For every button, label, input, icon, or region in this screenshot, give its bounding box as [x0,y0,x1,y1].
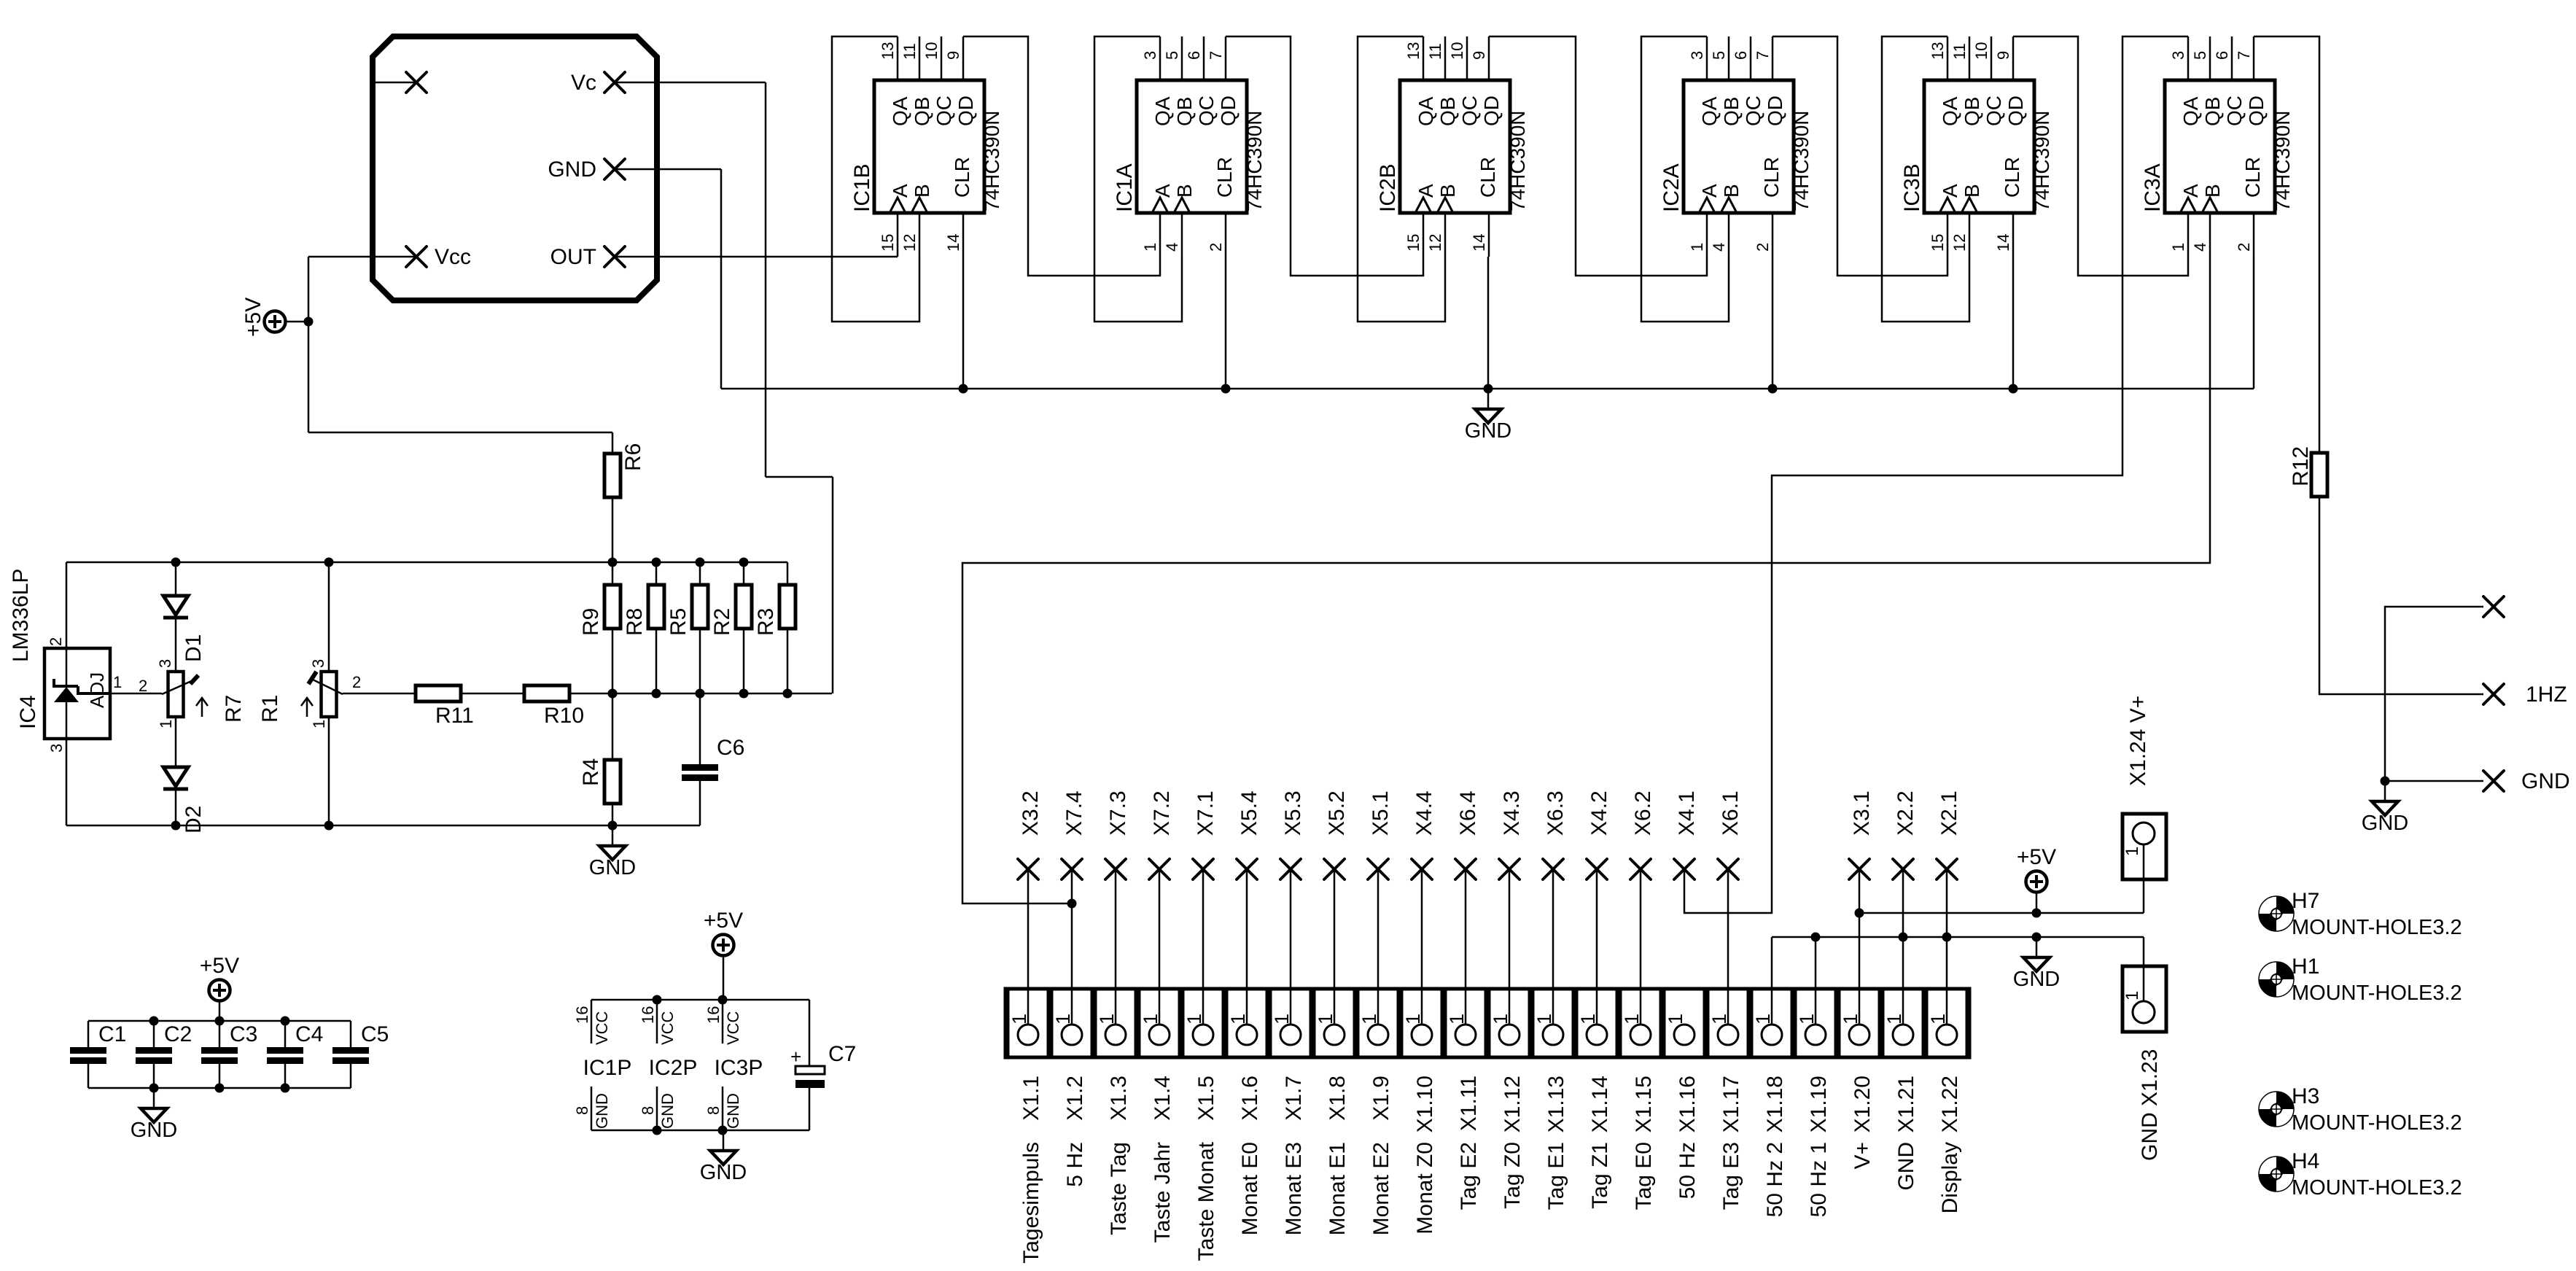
wire C6 top lead [699,693,701,764]
pin X5.3 (X) [1280,859,1301,879]
wire IC1B QA to B feedback [832,36,919,322]
ground symbol at outputs [2362,781,2408,835]
pin X7.1 (X) [1193,859,1213,879]
svg-text:X1.5: X1.5 [1194,1076,1218,1121]
svg-text:B: B [2201,184,2224,198]
svg-text:Monat E2: Monat E2 [1369,1142,1393,1235]
svg-text:6: 6 [1732,51,1750,60]
junction on bottom rail [783,689,793,699]
junction R4 on GND rail [608,821,618,831]
wire R9 top lead [612,562,614,585]
svg-text:10: 10 [922,42,941,60]
junction R1 column on GND rail [324,821,334,831]
pin X6.2 (X) [1630,859,1651,879]
svg-text:GND: GND [548,158,596,182]
connector pad X1.9 [1358,989,1398,1057]
svg-text:MOUNT-HOLE3.2: MOUNT-HOLE3.2 [2292,1176,2462,1200]
svg-text:13: 13 [879,42,897,60]
connector X1.23 [2122,966,2166,1032]
svg-text:D2: D2 [182,806,206,833]
svg-text:3: 3 [1688,51,1706,60]
junction on C bank top rail [215,1017,225,1026]
svg-text:X1.16: X1.16 [1676,1076,1700,1132]
wire GND rail of power pins [591,1130,809,1132]
svg-text:1HZ: 1HZ [2526,683,2567,707]
svg-text:CLR: CLR [1476,157,1499,198]
svg-text:4: 4 [1710,243,1728,252]
svg-text:14: 14 [1470,234,1488,252]
svg-text:QA: QA [889,96,911,126]
oscillator pin GND (X) [604,159,625,179]
svg-text:5: 5 [2191,51,2209,60]
pin X3.2 (X) [1018,859,1038,879]
svg-text:CLR: CLR [1213,157,1236,198]
svg-text:MOUNT-HOLE3.2: MOUNT-HOLE3.2 [2292,916,2462,939]
junction on GND rail right [2032,933,2042,942]
power pins IC3P [722,1000,724,1043]
junction IC2A CLR on GND bus [1768,384,1778,394]
svg-text:R4: R4 [579,758,603,786]
svg-text:X1.22: X1.22 [1938,1076,1962,1132]
resistor R5 [692,585,708,629]
wire to D1 anode [175,562,177,596]
svg-text:X3.2: X3.2 [1019,790,1043,836]
svg-text:11: 11 [1426,43,1444,60]
svg-text:H7: H7 [2292,889,2319,913]
svg-text:4: 4 [2191,243,2209,252]
svg-text:R6: R6 [621,443,645,471]
svg-text:X4.3: X4.3 [1500,790,1524,836]
pin X5.1 (X) [1368,859,1388,879]
junction IC3B CLR on GND bus [2009,384,2018,394]
IC4 LM336LP voltage reference [44,648,110,739]
pin X4.2 (X) [1587,859,1607,879]
resistor R4 [604,760,620,804]
connector pad X1.8 [1314,989,1355,1057]
capacitor C3 [201,1047,238,1064]
junction on C bank top rail [281,1017,290,1026]
wire C3 bottom lead [219,1064,221,1088]
svg-text:8: 8 [573,1106,591,1115]
junction +5V on V+ rail [2032,909,2042,918]
svg-text:GND: GND [700,1161,747,1184]
svg-text:R3: R3 [754,608,778,636]
svg-text:1: 1 [1446,1014,1468,1025]
+5V supply (IC power) [704,909,743,1000]
diode D2 [163,767,188,789]
svg-text:Tag Z1: Tag Z1 [1588,1142,1612,1209]
svg-text:13: 13 [1929,42,1947,60]
wire bottom GND rail [66,825,700,827]
wire R8 bottom lead [655,629,658,693]
wire IC2A CLR to GND bus [1772,257,1774,389]
junction on bottom rail [608,689,618,699]
svg-text:B: B [1961,184,1983,198]
svg-text:MOUNT-HOLE3.2: MOUNT-HOLE3.2 [2292,1111,2462,1135]
svg-text:Vc: Vc [571,71,596,95]
svg-text:X5.1: X5.1 [1369,790,1393,836]
ground symbol at divider [589,825,636,879]
svg-text:X3.1: X3.1 [1850,790,1874,836]
ground symbol at GND bus [1465,389,1511,443]
svg-text:QA: QA [1939,96,1961,126]
wire IC3A QA to 50 Hz 2 tap (X4.1) [1684,36,2188,913]
svg-text:X2.2: X2.2 [1894,790,1918,836]
wire pad X1.19 riser [1815,937,1817,1025]
wire C6 bottom lead [699,781,701,825]
wire IC1A CLR to GND bus [1225,257,1227,389]
svg-text:+: + [790,1046,801,1068]
wire R5 top lead [699,562,701,585]
svg-text:1: 1 [1577,1014,1599,1025]
svg-text:X1.17: X1.17 [1719,1076,1743,1132]
wire X2.2 to pad [1902,869,1904,1025]
svg-text:1: 1 [1927,1014,1949,1025]
svg-text:C5: C5 [361,1022,389,1046]
wire GND from oscillator [615,168,721,171]
svg-text:A: A [1415,184,1437,198]
wire Vc to divider rail [832,477,834,693]
resistor R3 [779,585,795,629]
svg-text:CLR: CLR [951,157,973,198]
wire IC3B CLR to GND bus [2012,257,2015,389]
svg-text:MOUNT-HOLE3.2: MOUNT-HOLE3.2 [2292,982,2462,1005]
trimmer potentiometer R7 [162,672,208,717]
svg-text:C6: C6 [717,736,744,760]
svg-text:1: 1 [1008,1014,1030,1025]
svg-text:X5.2: X5.2 [1325,790,1349,836]
svg-text:R1: R1 [258,695,282,723]
svg-text:1: 1 [1533,1014,1555,1025]
svg-text:1: 1 [1490,1014,1511,1025]
wire IC3A QD to R12 [2254,36,2319,453]
svg-text:A: A [1698,184,1721,198]
svg-text:X1.24 V+: X1.24 V+ [2126,696,2150,786]
svg-text:X1.11: X1.11 [1457,1076,1481,1131]
IC4 zener symbol [66,648,68,687]
mount hole H3 [2259,1084,2462,1135]
junction on bottom rail [739,689,749,699]
svg-text:QC: QC [2223,96,2246,126]
junction D2 column on GND rail [171,821,181,831]
wire X5.3 to pad X1.7 [1290,869,1292,1025]
wire VCC rail of power pins [591,999,809,1001]
svg-text:QC: QC [1195,96,1218,126]
svg-text:X1.18: X1.18 [1763,1076,1787,1132]
svg-text:X1.13: X1.13 [1544,1076,1568,1132]
svg-text:CLR: CLR [2241,157,2264,198]
wire Vcc net [308,256,416,258]
connector pad X1.11 [1445,989,1486,1057]
svg-text:Tag Z0: Tag Z0 [1501,1142,1525,1209]
resistor R10 [524,685,569,701]
svg-text:IC1B: IC1B [850,163,874,212]
svg-text:X7.3: X7.3 [1106,790,1130,836]
svg-text:50 Hz: 50 Hz [1676,1142,1700,1199]
svg-text:7: 7 [1754,51,1772,60]
svg-text:1: 1 [1621,1014,1643,1025]
wire IC1A QA to B feedback [1094,36,1182,322]
wire top rail of divider [66,561,787,564]
svg-text:3: 3 [156,659,174,668]
junction GND outputs [2381,777,2390,786]
junction X3.1 column on V+ rail [1855,909,1864,918]
svg-text:1: 1 [113,673,122,691]
capacitor C2 [136,1047,172,1064]
wire C7 bottom lead [809,1088,811,1130]
pin 1HZ (X) [2483,684,2504,704]
junction on bottom rail [696,689,705,699]
wire X2.1 to pad [1946,869,1948,1025]
svg-text:X1.1: X1.1 [1019,1076,1043,1121]
wire R9 bottom lead [612,629,614,693]
svg-text:74HC390N: 74HC390N [1790,110,1813,211]
resistor R12 [2311,453,2327,497]
capacitor C5 [332,1047,369,1064]
svg-text:VCC: VCC [658,1011,677,1045]
wire X5.4 to pad X1.6 [1246,869,1248,1025]
mount hole H7 [2259,889,2462,939]
svg-text:2: 2 [2235,243,2253,252]
svg-text:9: 9 [944,51,962,60]
svg-text:QD: QD [1480,96,1503,126]
svg-text:GND: GND [2013,968,2060,991]
wire C3 top lead [219,1021,221,1047]
svg-text:1: 1 [1665,1014,1686,1025]
pin X4.1 (X) [1674,859,1694,879]
connector pad X1.17 [1708,989,1748,1057]
oscillator pin Vcc (X) [406,246,427,267]
pin X7.3 (X) [1105,859,1126,879]
oscillator pin OUT (X) [604,246,625,267]
svg-text:74HC390N: 74HC390N [1506,110,1529,211]
svg-text:B: B [1173,184,1196,198]
svg-text:X2.1: X2.1 [1937,790,1961,836]
svg-text:X1.2: X1.2 [1063,1076,1087,1121]
svg-text:C2: C2 [164,1022,192,1046]
wire GND bus [721,388,2254,390]
junction on C bank top rail [149,1017,159,1026]
svg-text:QD: QD [954,96,977,126]
wire divider bottom rail [569,693,832,695]
svg-text:1: 1 [157,720,175,728]
resistor R11 [416,685,461,701]
resistor R8 [648,585,664,629]
svg-text:1: 1 [1096,1014,1118,1025]
svg-text:2: 2 [1754,243,1772,252]
svg-text:Taste Tag: Taste Tag [1107,1142,1131,1235]
svg-text:Monat E1: Monat E1 [1326,1142,1350,1235]
junction on top rail [696,558,705,567]
junction on GND rail [718,1126,728,1135]
svg-text:X1.3: X1.3 [1107,1076,1131,1121]
svg-text:QC: QC [933,96,955,126]
wire X1.23 pin to GND rail [2143,937,2145,1001]
svg-text:3: 3 [309,659,327,668]
IC IC2A 74HC390N counter [1659,36,1813,257]
connector pad X1.7 [1270,989,1311,1057]
wire GND vertical [720,169,723,389]
svg-text:CLR: CLR [1760,157,1783,198]
connector pad X1.21 [1883,989,1923,1057]
wire IC1B QD to IC1A A [963,36,1160,276]
svg-text:1: 1 [2169,243,2187,252]
svg-text:C7: C7 [828,1042,856,1066]
junction on top rail [608,558,618,567]
svg-text:12: 12 [1426,234,1444,252]
svg-text:IC3A: IC3A [2141,163,2165,212]
wire C5 bottom lead [350,1064,352,1088]
svg-text:4: 4 [1163,243,1181,252]
svg-text:X1.8: X1.8 [1326,1076,1350,1121]
wire Vc net [615,82,766,84]
wire X6.4 to pad X1.11 [1465,869,1467,1025]
wire IC2B QD to IC2A A [1489,36,1707,276]
wire IC3A B to 5 Hz column [962,257,2210,903]
svg-text:QC: QC [1458,96,1481,126]
junction on GND rail right [1942,933,1952,942]
svg-text:IC3P: IC3P [715,1056,763,1080]
wire D1 to R7 [175,618,177,670]
wire R1 top lead [328,562,330,672]
svg-text:GND: GND [658,1093,677,1129]
svg-text:16: 16 [573,1006,591,1024]
svg-text:IC2A: IC2A [1659,163,1684,212]
wire X7.2 to pad X1.4 [1159,869,1161,1025]
svg-text:QD: QD [2004,96,2027,126]
svg-text:1: 1 [1183,1014,1205,1025]
svg-text:Display: Display [1938,1142,1962,1213]
pin X2.1 (X) [1937,859,1957,879]
svg-text:X7.1: X7.1 [1194,790,1218,836]
svg-text:X4.2: X4.2 [1587,790,1611,836]
svg-text:GND: GND [593,1093,611,1129]
wire C4 top lead [284,1021,287,1047]
oscillator pin NC (X) [406,72,427,93]
svg-text:16: 16 [704,1006,723,1024]
svg-text:A: A [1151,184,1174,198]
connector X1.24 [2122,814,2166,879]
wire IC1A QD to IC2B A [1226,36,1423,276]
ground symbol at IC power [700,1130,747,1184]
svg-text:5: 5 [1163,51,1181,60]
svg-text:D1: D1 [182,634,206,662]
svg-text:Tag E1: Tag E1 [1544,1142,1568,1210]
wire pad X1.18 riser [1771,937,1773,1025]
svg-text:Monat E3: Monat E3 [1282,1142,1306,1235]
svg-text:X4.4: X4.4 [1412,790,1436,836]
junction on GND rail right [1811,933,1821,942]
wire D2 to GND rail [175,789,177,825]
wire R3 bottom lead [787,629,789,693]
svg-text:QD: QD [1217,96,1240,126]
svg-text:QA: QA [1151,96,1174,126]
connector pad X1.15 [1620,989,1661,1057]
svg-text:1: 1 [1752,1014,1774,1025]
wire OUT to IC1B pin 15 [615,256,898,258]
svg-text:IC1P: IC1P [583,1056,632,1080]
svg-text:V+: V+ [1851,1142,1875,1170]
ground symbol at C bank [131,1088,177,1142]
wire IC2B QA to B feedback [1358,36,1445,322]
svg-text:GND X1.23: GND X1.23 [2138,1049,2162,1161]
wire Vc horizontal [766,476,833,478]
svg-text:Vcc: Vcc [435,245,471,269]
pin X6.3 (X) [1543,859,1563,879]
svg-text:H1: H1 [2292,955,2319,979]
diode D1 [163,596,188,618]
svg-text:X7.2: X7.2 [1150,790,1174,836]
svg-text:10: 10 [1448,42,1466,60]
wire R11 to R10 [461,693,524,695]
wire X7.3 to pad X1.3 [1115,869,1117,1025]
svg-text:X4.1: X4.1 [1675,790,1699,836]
connector pad X1.13 [1533,989,1573,1057]
svg-text:X1.9: X1.9 [1369,1076,1393,1121]
connector pad X1.4 [1139,989,1180,1057]
wire R6 to top rail [612,497,614,562]
wire R2 bottom lead [743,629,745,693]
svg-text:1: 1 [1052,1014,1074,1025]
svg-text:GND: GND [2362,812,2408,835]
svg-text:+5V: +5V [2017,845,2056,869]
connector pad X1.12 [1489,989,1530,1057]
svg-text:GND: GND [724,1093,742,1129]
svg-text:X5.3: X5.3 [1281,790,1305,836]
wire R12 to 1HZ output [2319,497,2483,694]
wire IC2B CLR to GND bus [1487,257,1490,389]
svg-text:Taste Jahr: Taste Jahr [1151,1142,1175,1243]
svg-text:QB: QB [1720,97,1743,126]
wire X3.1 to pad [1859,869,1861,1025]
wire X5.2 to pad X1.8 [1334,869,1336,1025]
IC IC3A 74HC390N counter [2141,36,2294,257]
svg-text:X1.20: X1.20 [1851,1076,1875,1132]
svg-text:+5V: +5V [241,298,265,337]
wire X4.2 to pad X1.14 [1596,869,1598,1025]
wire C bank top rail [88,1020,351,1022]
svg-text:X6.4: X6.4 [1456,790,1480,836]
svg-text:GND: GND [131,1119,177,1142]
svg-text:GND: GND [1465,419,1511,443]
junction on VCC rail [653,995,662,1005]
junction 5 Hz column [1067,899,1077,909]
svg-text:X6.2: X6.2 [1631,790,1655,836]
junction on GND rail right [1899,933,1908,942]
connector pad X1.1 [1008,989,1048,1057]
svg-text:B: B [1436,184,1459,198]
pin X3.1 (X) [1849,859,1869,879]
pin X4.4 (X) [1412,859,1432,879]
junction D1 column on top rail [171,558,181,567]
connector pad X1.19 [1795,989,1836,1057]
svg-text:Taste Monat: Taste Monat [1194,1141,1218,1261]
wire R6 top lead [612,432,614,454]
svg-text:1: 1 [1883,1014,1905,1025]
svg-text:GND: GND [589,856,636,879]
svg-text:1: 1 [1271,1014,1293,1025]
wire V+ rail [1859,912,2144,914]
connector pad X1.22 [1926,989,1967,1057]
wire X6.2 to pad X1.15 [1640,869,1642,1025]
IC IC2B 74HC390N counter [1376,36,1529,257]
pin X6.1 (X) [1718,859,1738,879]
wire X1.24 pin to V+ rail [2143,844,2145,913]
svg-text:X7.4: X7.4 [1062,790,1086,836]
IC IC3B 74HC390N counter [1900,36,2053,257]
svg-text:9: 9 [1470,51,1488,60]
pin X6.4 (X) [1455,859,1476,879]
